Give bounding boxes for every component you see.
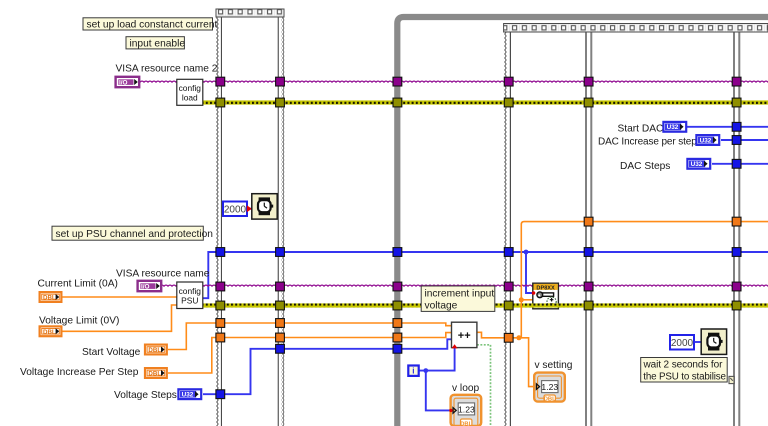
junction dot orange at DP8xx branch bbox=[519, 297, 524, 302]
flat sequence S1 right border zigzag bbox=[281, 9, 284, 426]
flat sequence S2 frame divider D1 bbox=[585, 31, 592, 426]
tunnel: purple on S2 left (top) bbox=[504, 77, 513, 86]
svg-text:v loop: v loop bbox=[452, 383, 480, 394]
flat sequence S2 left border inner line bbox=[510, 31, 511, 426]
svg-text:1.23: 1.23 bbox=[541, 382, 558, 392]
wire: iteration terminal to add node bottom bbox=[419, 348, 455, 371]
tunnel: orange top on D2 bbox=[732, 217, 741, 226]
wire: Voltage Limit DBL to config PSU bbox=[62, 305, 177, 331]
svg-text:2000: 2000 bbox=[671, 338, 694, 349]
svg-text:set up PSU channel and protect: set up PSU channel and protection bbox=[56, 229, 213, 240]
svg-text:Voltage Steps: Voltage Steps bbox=[114, 390, 177, 401]
svg-text:DBL: DBL bbox=[43, 329, 56, 336]
tunnel: orange top on D1 bbox=[584, 217, 593, 226]
control terminal: Start DAC U32 bbox=[663, 122, 686, 132]
svg-text:Voltage Increase Per Step: Voltage Increase Per Step bbox=[20, 367, 139, 378]
tunnel: orange VIPS on S1 left bbox=[216, 333, 225, 342]
tunnel: purple on S2 left (bottom) bbox=[504, 282, 513, 291]
tunnel: purple on D2 (bottom) bbox=[732, 282, 741, 291]
svg-text:increment input: increment input bbox=[425, 288, 495, 299]
tunnel: error on S2 left (bottom) bbox=[504, 301, 513, 310]
free label: wait 2 seconds for the PSU to stabilise bbox=[641, 358, 728, 383]
tunnel: blue Voltage Steps on while loop bbox=[393, 344, 402, 353]
tunnel: error on S1 right (top wire) bbox=[276, 98, 285, 107]
flat sequence S2 top film band bbox=[504, 24, 768, 33]
flat sequence S1 left border zigzag bbox=[216, 9, 219, 426]
svg-text:DBL: DBL bbox=[148, 347, 161, 354]
wire: orange vertical riser to top horizontal bbox=[521, 222, 768, 338]
tunnel: orange Start Voltage on S1 left bbox=[216, 319, 225, 328]
wire: orange branch to DP8xx input bbox=[521, 299, 533, 301]
mouse cursor glyph bbox=[729, 376, 734, 383]
tunnel: purple on D1 (bottom) bbox=[584, 282, 593, 291]
tunnel: orange VIPS on S1 right bbox=[276, 333, 285, 342]
wire: DAC Steps U32 to right edge bbox=[712, 163, 768, 165]
indicator: v setting bbox=[534, 373, 565, 403]
control terminal: Voltage Increase Per Step DBL bbox=[145, 368, 167, 378]
junction dot orange at tunnel branch bbox=[516, 335, 521, 340]
free label: input enable bbox=[126, 37, 185, 50]
tunnel: error on S1 right (bottom) bbox=[276, 301, 285, 310]
tunnel: orange Start Voltage on S1 right bbox=[276, 319, 285, 328]
iteration terminal i bbox=[408, 366, 418, 376]
tunnel: purple on S1 left (bottom) bbox=[216, 282, 225, 291]
tunnel: error on while loop (top) bbox=[393, 98, 402, 107]
wire: error cluster top, config load to right edge bbox=[203, 100, 768, 104]
svg-text:DBL: DBL bbox=[544, 397, 556, 403]
junction dot blue at branch bbox=[524, 250, 529, 255]
wire: Start Voltage to add node bbox=[168, 323, 452, 350]
wire: orange branch to v setting bbox=[519, 338, 534, 387]
control terminal: Voltage Limit DBL bbox=[40, 326, 62, 336]
svg-text:load: load bbox=[182, 93, 198, 103]
tunnel: purple on while loop (bottom) bbox=[393, 282, 402, 291]
flat sequence S1 right border inner line bbox=[278, 16, 279, 426]
indicator: v loop bbox=[449, 395, 481, 426]
wait ms function (wait 2 seconds) bbox=[701, 329, 726, 354]
free label: increment input voltage bbox=[421, 286, 495, 311]
svg-text:U32: U32 bbox=[182, 392, 194, 399]
wire: iteration branch down to v loop bbox=[426, 371, 450, 411]
wire: VISA purple top, I/O1 to config load bbox=[139, 80, 177, 84]
svg-text:Voltage Limit (0V): Voltage Limit (0V) bbox=[39, 316, 119, 327]
svg-text:Start Voltage: Start Voltage bbox=[82, 347, 141, 358]
svg-text:DBL: DBL bbox=[460, 421, 472, 426]
wire: DAC Increase per step U32 to right edge bbox=[721, 139, 768, 141]
wire: Start DAC U32 to right edge bbox=[687, 126, 768, 128]
svg-text:input enable: input enable bbox=[130, 38, 186, 49]
tunnel: orange Start Voltage on while loop bbox=[393, 319, 402, 328]
svg-text:++: ++ bbox=[458, 330, 471, 342]
flat sequence S1 left border inner line bbox=[221, 16, 222, 426]
svg-text:U32: U32 bbox=[700, 137, 712, 144]
svg-text:i: i bbox=[412, 367, 414, 376]
tunnel: blue on S2 left (channel) bbox=[504, 248, 513, 257]
tunnel: error on D1 (bottom) bbox=[584, 301, 593, 310]
tunnel: error on S1 left (bottom) bbox=[216, 301, 225, 310]
wire: blue channel from config PSU to right edge bbox=[203, 252, 768, 298]
tunnel: error on while loop (bottom) bbox=[393, 301, 402, 310]
wire: error cluster bottom, config PSU to right edge bbox=[203, 303, 768, 307]
svg-text:Start DAC: Start DAC bbox=[618, 124, 664, 135]
wire: Voltage Steps blue to add node bbox=[203, 339, 452, 394]
while loop W1 border bbox=[397, 17, 768, 426]
tunnel: purple on D2 (top) bbox=[732, 77, 741, 86]
svg-text:U32: U32 bbox=[667, 124, 679, 131]
flat sequence S2 frame divider D2 bbox=[733, 31, 740, 426]
junction dot blue at i branch bbox=[423, 368, 428, 373]
tunnel: blue Voltage Steps on S1 right bbox=[276, 344, 285, 353]
wire: Current Limit DBL to config PSU bbox=[62, 296, 177, 298]
svg-text:DBL: DBL bbox=[148, 371, 161, 378]
svg-text:1.23: 1.23 bbox=[458, 404, 475, 414]
wire: VISA purple top, config load to right edge bbox=[203, 80, 768, 84]
subVI: DP8xx configure voltage bbox=[532, 283, 559, 309]
svg-text:2000: 2000 bbox=[224, 205, 247, 216]
tunnel: error on D1 (top) bbox=[584, 98, 593, 107]
tunnel: purple on D1 (top) bbox=[584, 77, 593, 86]
tunnel: blue on S1 right (channel) bbox=[276, 248, 285, 257]
wire: error cluster overlay across DP8xx bbox=[532, 303, 559, 307]
control terminal: Voltage Steps U32 bbox=[178, 389, 201, 399]
svg-text:set up load constanct current: set up load constanct current bbox=[87, 19, 218, 30]
free label: set up PSU channel and protection bbox=[52, 226, 213, 240]
tunnel: error on S1 left (top wire) bbox=[216, 98, 225, 107]
tunnel: error on D2 (top) bbox=[732, 98, 741, 107]
tunnel: error on D2 (bottom) bbox=[732, 301, 741, 310]
tunnel: purple on S1 left (top wire) bbox=[216, 77, 225, 86]
flat sequence S2 left border zigzag bbox=[504, 24, 507, 426]
svg-text:DAC Steps: DAC Steps bbox=[620, 161, 670, 172]
tunnel: blue Voltage Steps on S1 left bbox=[216, 390, 225, 399]
free label: set up load constanct current bbox=[83, 18, 217, 31]
control terminal: VISA resource name 2 (I/O) bbox=[116, 77, 140, 87]
svg-text:U32: U32 bbox=[691, 161, 703, 168]
wait ms function (frame 1) bbox=[252, 194, 277, 219]
wire: Voltage Increase Per Step to add node bbox=[168, 333, 452, 373]
tunnel: error on S2 left (top) bbox=[504, 98, 513, 107]
wire: VISA purple bottom, config PSU to right edge bbox=[203, 285, 768, 289]
wire: VISA purple bottom, I/O2 to config PSU bbox=[161, 285, 178, 289]
numeric constant 2000 (frame 1) bbox=[223, 202, 252, 217]
svg-text:VISA resource name: VISA resource name bbox=[116, 269, 210, 280]
svg-text:wait 2 seconds for: wait 2 seconds for bbox=[643, 360, 724, 371]
svg-text:DAC Increase per step: DAC Increase per step bbox=[598, 137, 697, 148]
svg-text:I/O: I/O bbox=[141, 284, 150, 291]
tunnel: purple on S1 right (bottom) bbox=[276, 282, 285, 291]
tunnel: purple on S1 right (top wire) bbox=[276, 77, 285, 86]
svg-text:DBL: DBL bbox=[43, 295, 56, 302]
control terminal: VISA resource name (I/O) bbox=[138, 281, 162, 291]
tunnel: blue on D1 (channel) bbox=[584, 248, 593, 257]
svg-text:config: config bbox=[179, 83, 202, 93]
tunnel: blue Start DAC on D2 bbox=[732, 122, 741, 131]
svg-text:DP8XX: DP8XX bbox=[536, 285, 555, 291]
control terminal: Start Voltage DBL bbox=[145, 345, 167, 355]
tunnel: blue DAC Increase on D2 bbox=[732, 136, 741, 145]
svg-text:Current Limit (0A): Current Limit (0A) bbox=[38, 279, 118, 290]
tunnel: blue on S1 left (channel) bbox=[216, 248, 225, 257]
flat sequence S1 top film band bbox=[216, 9, 284, 17]
wire: boolean green dashed from add node bbox=[477, 345, 491, 426]
tunnel: purple on while loop (top) bbox=[393, 77, 402, 86]
svg-text:PSU: PSU bbox=[181, 295, 198, 305]
subVI: config load bbox=[177, 79, 203, 105]
wire: blue branch down to DP8xx bbox=[526, 252, 533, 293]
wire: add node output orange to tunnel and junction bbox=[477, 332, 522, 338]
svg-text:config: config bbox=[179, 286, 202, 296]
tunnel: blue on D2 (channel) bbox=[732, 248, 741, 257]
subVI: config PSU bbox=[177, 282, 203, 309]
control terminal: DAC Increase per step U32 bbox=[696, 135, 719, 145]
svg-text:I/O: I/O bbox=[119, 80, 128, 87]
svg-text:the PSU to stabilise: the PSU to stabilise bbox=[643, 371, 726, 382]
svg-text:voltage: voltage bbox=[425, 300, 458, 311]
svg-text:v setting: v setting bbox=[535, 360, 573, 371]
svg-text:VISA resource name 2: VISA resource name 2 bbox=[116, 64, 218, 75]
tunnel: orange VIPS on while loop bbox=[393, 333, 402, 342]
control terminal: DAC Steps U32 bbox=[687, 159, 710, 169]
tunnel: orange ++ output on S2 left bbox=[504, 333, 513, 342]
tunnel: blue on while loop (channel) bbox=[393, 248, 402, 257]
numeric constant 2000 (wait 2 seconds) bbox=[670, 335, 701, 350]
add node ++ bbox=[452, 322, 477, 348]
control terminal: Current Limit DBL bbox=[40, 292, 62, 302]
tunnel: blue DAC Steps on D2 bbox=[732, 159, 741, 168]
